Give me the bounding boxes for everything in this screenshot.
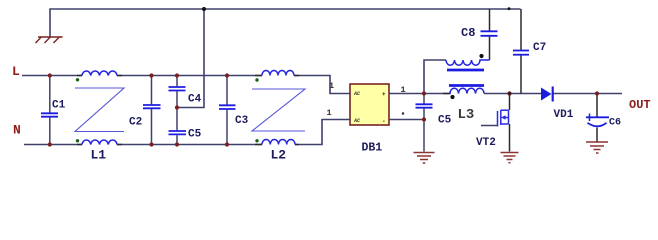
ground DB1 bbox=[414, 153, 435, 164]
junction C3 L bbox=[225, 73, 229, 77]
wire earth drop to C4/C5 midpoint bbox=[179, 9, 204, 108]
polarity dot L3 bottom bbox=[450, 95, 454, 99]
capacitor C6 bbox=[586, 94, 621, 142]
wire L3 top winding branch bbox=[424, 60, 446, 94]
junction C3 N bbox=[225, 142, 229, 146]
wire VT2 drain bbox=[509, 94, 511, 111]
junction VT2 drain bbox=[507, 91, 511, 95]
svg-text:L3: L3 bbox=[458, 107, 475, 123]
capacitor C1 bbox=[41, 76, 66, 145]
wire VT2 source bbox=[509, 124, 511, 152]
transformer L3 bottom winding bbox=[449, 88, 484, 93]
svg-text:VD1: VD1 bbox=[554, 109, 574, 121]
svg-text:C4: C4 bbox=[188, 94, 202, 106]
transformer L3 bottom winding pin bbox=[443, 93, 450, 95]
transformer L3 top winding bbox=[446, 60, 490, 65]
capacitor C5 bulk bbox=[416, 94, 452, 152]
svg-text:DB1: DB1 bbox=[362, 142, 383, 155]
capacitor C8 bbox=[461, 9, 498, 60]
svg-text:OUT: OUT bbox=[629, 98, 651, 112]
svg-text:+: + bbox=[382, 91, 386, 98]
junction DC node bbox=[422, 91, 426, 95]
choke L1 coupling Z bbox=[75, 88, 124, 132]
svg-text:VT2: VT2 bbox=[476, 137, 496, 149]
chassis ground bbox=[36, 37, 63, 43]
svg-text:C3: C3 bbox=[235, 115, 249, 127]
svg-text:L: L bbox=[12, 64, 20, 79]
junction C4 L bbox=[175, 73, 179, 77]
svg-text:C2: C2 bbox=[129, 117, 142, 129]
junction C2 N bbox=[149, 142, 153, 146]
svg-text:1: 1 bbox=[327, 108, 332, 118]
capacitor C5 bbox=[169, 108, 202, 145]
capacitor C2 bbox=[129, 76, 161, 145]
svg-text:C5: C5 bbox=[438, 115, 452, 127]
svg-text:AC: AC bbox=[353, 91, 360, 97]
junction C4 C5 midpoint bbox=[175, 105, 179, 109]
junction blip top rail bbox=[508, 7, 511, 10]
wire VT2 gate bbox=[481, 125, 498, 127]
svg-text:C5: C5 bbox=[188, 129, 202, 141]
svg-text:C7: C7 bbox=[533, 42, 546, 54]
wire N rail bbox=[24, 144, 82, 146]
svg-text:C1: C1 bbox=[52, 100, 66, 112]
junction top rail earth bbox=[202, 7, 206, 11]
wire L rail bbox=[22, 75, 82, 77]
transformer L3 core bars bbox=[447, 69, 484, 72]
pin dot DB1 bottom right bbox=[402, 112, 404, 114]
svg-text:AC: AC bbox=[353, 118, 360, 124]
svg-text:-: - bbox=[382, 118, 386, 125]
polarity dot L2 top bbox=[255, 78, 258, 81]
junction C1 L bbox=[48, 73, 52, 77]
VT2 arrow bbox=[501, 115, 506, 119]
wire L rail mid bbox=[117, 75, 262, 77]
wire output rail bbox=[554, 93, 623, 95]
polarity dot L3 top bbox=[479, 54, 483, 58]
svg-text:C6: C6 bbox=[609, 118, 621, 129]
svg-text:1: 1 bbox=[329, 81, 334, 91]
capacitor C7 bbox=[513, 9, 546, 94]
inductor L2 top winding bbox=[255, 75, 299, 77]
wire DB1 minus output bbox=[389, 119, 424, 121]
junction C6 out bbox=[595, 91, 599, 95]
wire DB1 plus output bbox=[389, 93, 449, 95]
ground C6 bbox=[586, 142, 608, 153]
wire N rail to DB1 bbox=[295, 120, 350, 145]
choke L2 coupling Z bbox=[252, 89, 305, 131]
inductor L1 bottom winding bbox=[77, 144, 122, 146]
svg-text:L2: L2 bbox=[271, 148, 287, 163]
wire earth rail top bbox=[50, 9, 521, 37]
wire DC rail bbox=[484, 93, 541, 95]
capacitor C4 bbox=[169, 76, 202, 108]
junction C5 N bbox=[175, 142, 179, 146]
diode VD1 bbox=[541, 88, 552, 101]
junction minus node bbox=[422, 117, 426, 121]
bridge rectifier DB1 bbox=[350, 84, 389, 125]
svg-text:C8: C8 bbox=[461, 26, 475, 40]
polarity dot L2 bottom bbox=[255, 139, 258, 142]
svg-text:L1: L1 bbox=[91, 148, 107, 163]
polarity dot L1 bottom bbox=[76, 139, 79, 142]
junction C1 N bbox=[48, 142, 52, 146]
junction C2 L bbox=[149, 73, 153, 77]
wire L rail to DB1 bbox=[294, 76, 350, 94]
capacitor C3 bbox=[219, 76, 249, 145]
inductor L1 top winding bbox=[77, 75, 122, 77]
inductor L2 bottom winding bbox=[255, 144, 299, 146]
polarity dot L1 top bbox=[76, 78, 79, 81]
wire N rail mid bbox=[117, 144, 262, 146]
ground VT2 bbox=[501, 153, 519, 163]
transistor VT2 bbox=[498, 110, 509, 127]
svg-text:N: N bbox=[13, 123, 21, 138]
